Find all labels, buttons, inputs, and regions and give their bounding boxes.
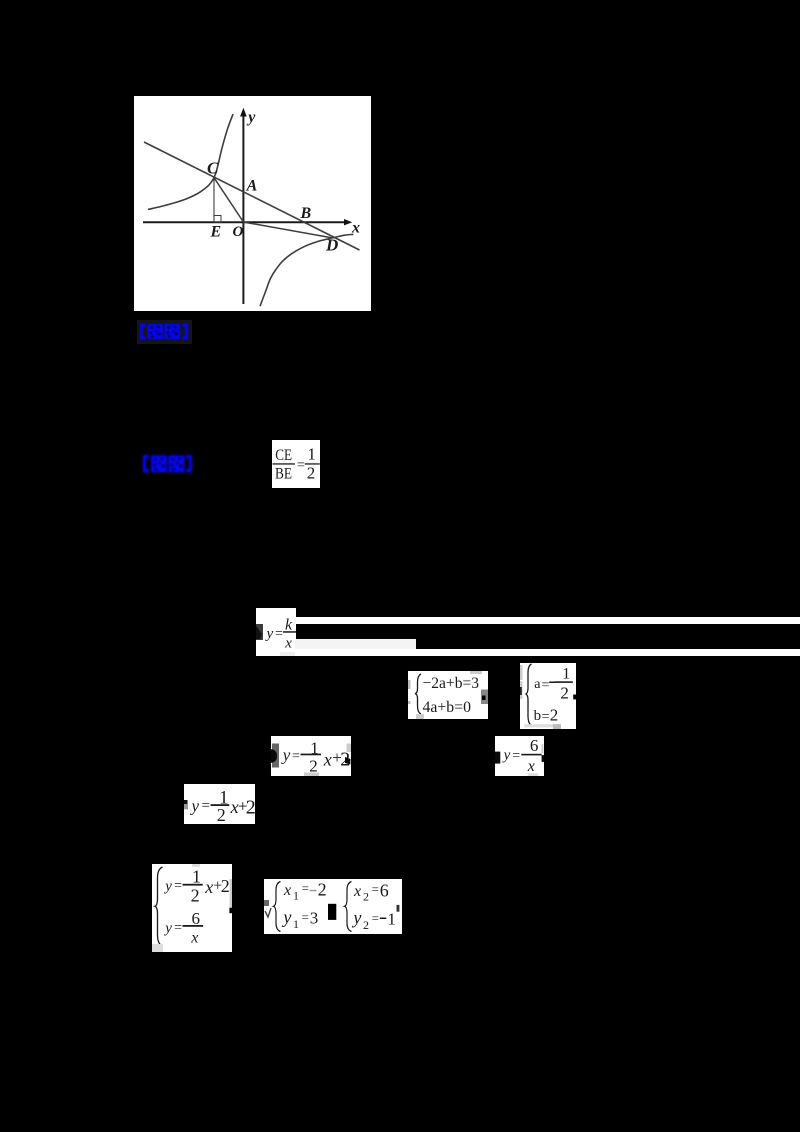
svg-text:=: =: [202, 798, 210, 814]
svg-text:1: 1: [307, 445, 316, 464]
dark blob left: [256, 624, 263, 640]
svg-text:x: x: [527, 758, 535, 775]
svg-text:x: x: [351, 220, 360, 237]
equation y=k/x box: [256, 608, 296, 656]
svg-text:2: 2: [307, 464, 316, 483]
svg-text:=: =: [542, 710, 550, 725]
svg-text:1: 1: [293, 888, 299, 902]
svg-text:D: D: [325, 236, 338, 255]
svg-text:=: =: [292, 749, 300, 764]
svg-text:y: y: [281, 907, 291, 927]
svg-text:x: x: [284, 636, 292, 652]
equation y=6/x (first): [495, 736, 544, 776]
svg-text:x: x: [204, 877, 213, 897]
svg-text:x: x: [190, 930, 198, 947]
svg-text:C: C: [207, 159, 219, 178]
svg-text:x: x: [353, 883, 361, 900]
svg-text:2: 2: [363, 889, 369, 903]
svg-text:=: =: [372, 882, 379, 897]
svg-text:6: 6: [380, 881, 389, 901]
y-axis: [240, 108, 247, 304]
svg-text:x: x: [283, 882, 291, 899]
segment CO: [214, 178, 243, 222]
svg-text:b: b: [534, 708, 542, 724]
svg-text:k: k: [285, 617, 293, 634]
svg-text:2: 2: [217, 805, 226, 824]
svg-text:x: x: [323, 749, 332, 769]
big system {y=1/2x+2 / y=6/x}: [152, 864, 232, 952]
hyperbola lower-right branch: [260, 234, 353, 306]
svg-text:6: 6: [192, 909, 201, 928]
svg-text:=: =: [302, 881, 309, 896]
svg-text:3: 3: [310, 908, 319, 927]
svg-text:1: 1: [387, 909, 396, 928]
svg-text:1: 1: [293, 917, 299, 931]
system {a=-1/2 / b=2}: [520, 663, 576, 729]
svg-text:2: 2: [246, 796, 255, 818]
svg-text:O: O: [233, 224, 244, 240]
svg-text:2: 2: [560, 684, 569, 703]
svg-text:=: =: [302, 910, 309, 925]
white strip 2: [295, 649, 800, 656]
svg-text:y: y: [190, 796, 200, 815]
svg-text:y: y: [281, 745, 291, 764]
x-axis: [143, 219, 352, 225]
segment CE: [213, 178, 215, 222]
svg-text:B: B: [300, 205, 312, 222]
svg-text:E: E: [210, 224, 222, 241]
svg-text:=: =: [297, 458, 305, 473]
svg-text:y: y: [163, 920, 172, 936]
blue label 2: [142, 453, 195, 475]
svg-text:CE: CE: [275, 447, 292, 464]
svg-text:2: 2: [318, 880, 327, 900]
blue label 1: [137, 320, 192, 344]
svg-text:BE: BE: [275, 466, 292, 483]
svg-text:1: 1: [192, 866, 201, 886]
graph figure box: [134, 96, 371, 311]
equation CE/BE = 1/2: [272, 440, 320, 488]
svg-text:=: =: [174, 921, 182, 936]
svg-text:y: y: [502, 747, 511, 763]
hyperbola upper-left branch: [148, 114, 233, 210]
svg-text:=: =: [512, 749, 520, 764]
line through C A B D: [144, 142, 360, 250]
svg-text:2: 2: [309, 756, 318, 775]
system {-2a+b=3 / 4a+b=0}: [408, 671, 488, 719]
svg-text:y: y: [163, 878, 172, 894]
solutions {x1=-2,y1=3} [] {x2=6,y2=-1}: [264, 879, 402, 934]
svg-text:a: a: [534, 677, 541, 692]
white strip 1: [296, 617, 800, 625]
off-white block: [295, 639, 417, 649]
svg-text:6: 6: [530, 736, 539, 755]
svg-text:A: A: [246, 178, 258, 195]
svg-text:−2a+b=3: −2a+b=3: [423, 675, 480, 692]
svg-text:4a+b=0: 4a+b=0: [423, 699, 472, 716]
svg-text:y: y: [351, 908, 361, 928]
svg-text:=: =: [372, 911, 379, 926]
equation y=-1/2x+2 (second): [184, 784, 255, 824]
svg-text:y: y: [265, 626, 274, 642]
svg-text:2: 2: [363, 918, 369, 932]
svg-text:2: 2: [191, 886, 200, 906]
svg-text:y: y: [246, 109, 256, 126]
right angle mark at E: [214, 216, 221, 223]
svg-text:1: 1: [562, 666, 570, 683]
segment OD: [243, 222, 332, 238]
svg-text:=: =: [275, 626, 283, 641]
svg-text:=: =: [542, 678, 550, 693]
svg-text:2: 2: [221, 876, 230, 896]
svg-text:2: 2: [550, 705, 559, 724]
svg-text:=: =: [174, 879, 182, 894]
equation y=-1/2x+2 (first): [271, 736, 351, 776]
